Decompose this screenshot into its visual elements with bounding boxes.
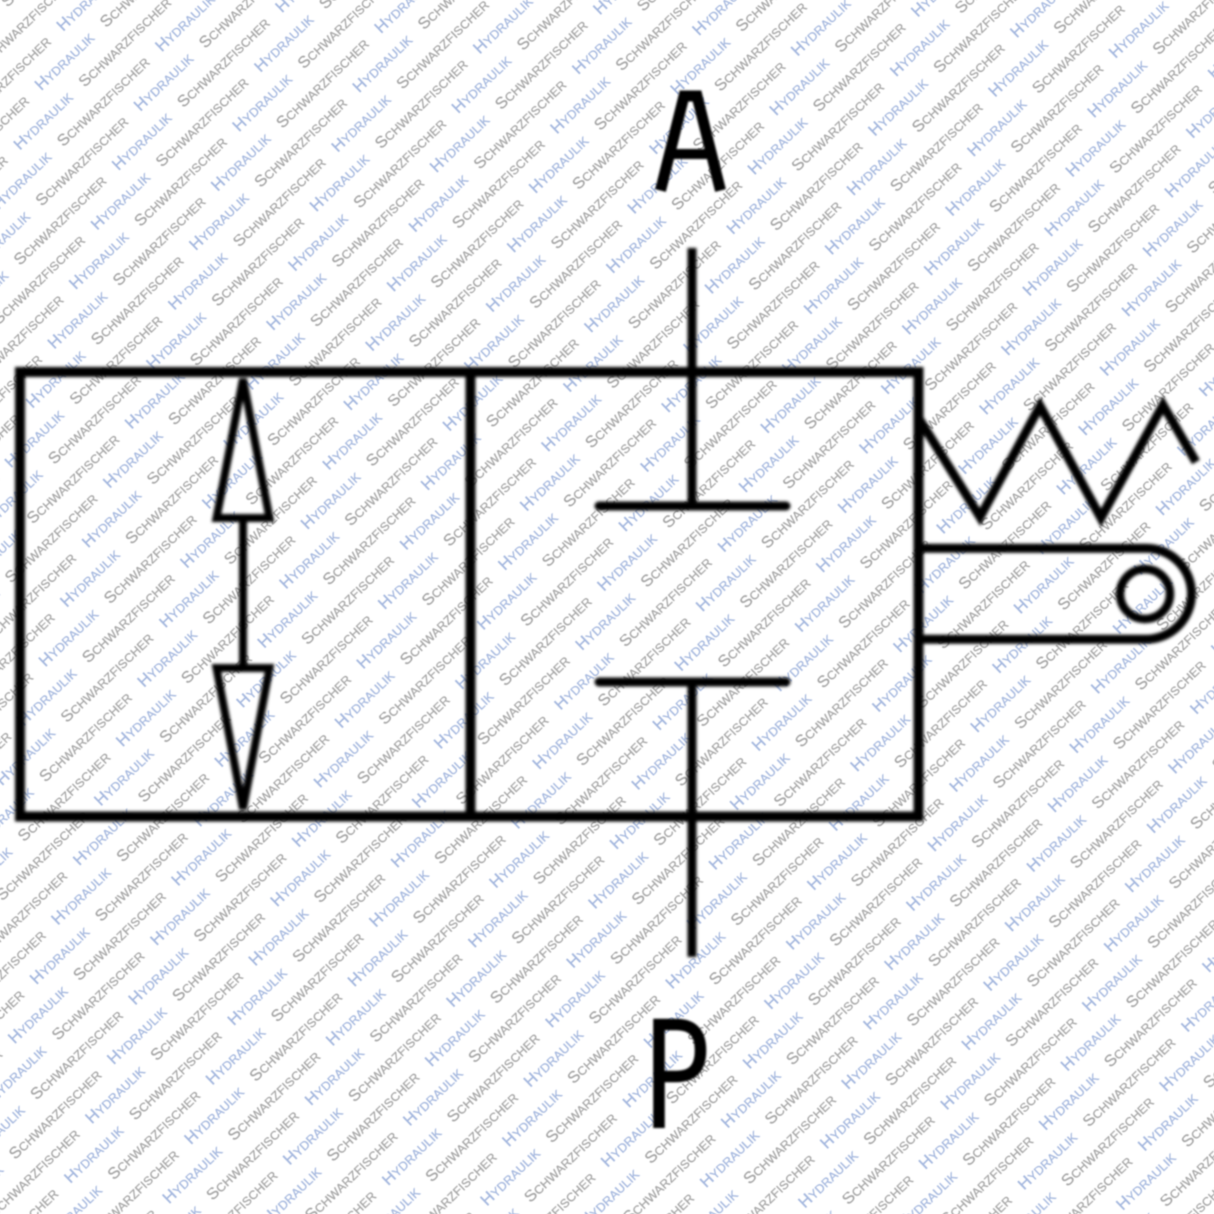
label A crossbar — [668, 149, 713, 159]
double arrow shaft — [239, 518, 247, 668]
double arrow upper head — [217, 379, 270, 518]
port A line — [688, 248, 697, 506]
blocked port P bar — [599, 678, 786, 687]
double arrow lower head — [217, 668, 270, 809]
label P — [659, 1025, 701, 1129]
roller lever arm — [918, 548, 1192, 639]
spring — [918, 405, 1196, 518]
roller — [1120, 569, 1170, 619]
blocked port A bar — [599, 502, 786, 511]
valve body box — [20, 372, 919, 817]
position divider — [466, 372, 476, 817]
port P line — [688, 682, 697, 957]
label A — [661, 96, 721, 191]
